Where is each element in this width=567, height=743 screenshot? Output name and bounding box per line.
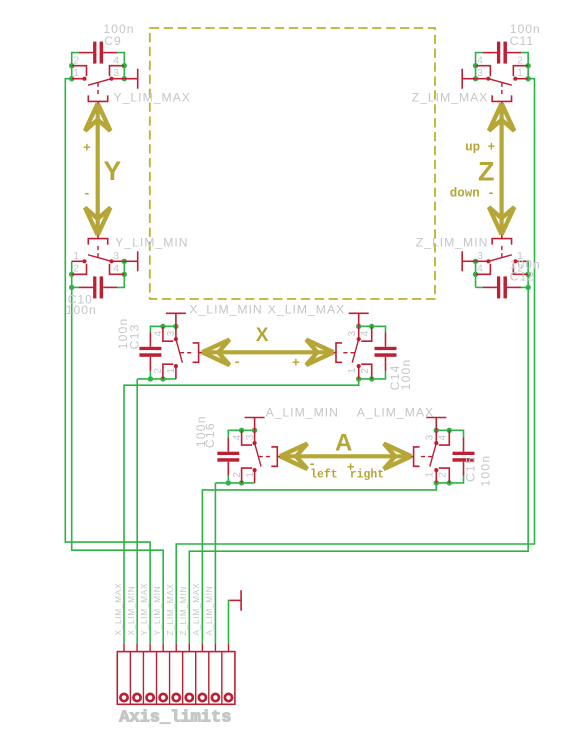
svg-text:2: 2 (517, 56, 523, 67)
svg-text:C11: C11 (510, 34, 534, 48)
svg-text:Y: Y (104, 156, 122, 186)
svg-text:4: 4 (113, 56, 119, 67)
svg-text:Axis_limits: Axis_limits (119, 708, 231, 727)
svg-text:Z_LIM_MAX: Z_LIM_MAX (412, 91, 489, 105)
svg-text:4: 4 (113, 264, 119, 275)
svg-text:1: 1 (347, 368, 358, 374)
svg-text:Y_LIM_MAX: Y_LIM_MAX (140, 583, 149, 636)
svg-text:C13: C13 (127, 323, 141, 349)
svg-text:2: 2 (153, 368, 164, 374)
svg-text:3: 3 (113, 68, 119, 79)
svg-text:X_LIM_MAX: X_LIM_MAX (114, 583, 123, 636)
svg-text:1: 1 (166, 368, 177, 374)
svg-text:Z: Z (478, 157, 495, 187)
svg-text:4: 4 (438, 434, 449, 440)
svg-text:X_LIM_MIN: X_LIM_MIN (127, 586, 136, 636)
svg-text:1: 1 (517, 68, 523, 79)
svg-text:100n: 100n (399, 358, 413, 390)
svg-text:3: 3 (113, 251, 119, 262)
svg-text:1: 1 (425, 472, 436, 478)
svg-text:Y_LIM_MIN: Y_LIM_MIN (153, 586, 162, 636)
svg-text:-: - (83, 186, 91, 201)
svg-text:X_LIM_MAX: X_LIM_MAX (268, 302, 345, 316)
svg-text:+: + (292, 356, 300, 371)
svg-text:C9: C9 (104, 34, 122, 48)
svg-text:2: 2 (73, 264, 79, 275)
svg-text:3: 3 (245, 434, 256, 440)
svg-text:A_LIM_MAX: A_LIM_MAX (357, 406, 434, 420)
svg-text:-: - (233, 354, 241, 369)
svg-text:3: 3 (477, 251, 483, 262)
svg-text:A_LIM_MAX: A_LIM_MAX (192, 583, 201, 636)
svg-text:3: 3 (477, 68, 483, 79)
svg-text:C12: C12 (510, 270, 535, 284)
svg-text:3: 3 (425, 434, 436, 440)
svg-text:A_LIM_MIN: A_LIM_MIN (205, 586, 214, 636)
svg-text:up +: up + (465, 140, 495, 154)
svg-text:+: + (83, 140, 91, 155)
svg-text:1: 1 (245, 472, 256, 478)
svg-text:right: right (350, 469, 385, 482)
svg-text:2: 2 (438, 472, 449, 478)
svg-text:Y_LIM_MIN: Y_LIM_MIN (115, 235, 188, 249)
svg-text:4: 4 (232, 434, 243, 440)
svg-text:1: 1 (73, 251, 79, 262)
svg-text:100n: 100n (66, 303, 97, 317)
svg-text:C16: C16 (203, 422, 217, 448)
svg-text:Z_LIM_MIN: Z_LIM_MIN (416, 235, 489, 249)
svg-text:X: X (256, 325, 269, 346)
svg-text:A: A (335, 429, 352, 456)
svg-text:4: 4 (153, 330, 164, 336)
svg-text:2: 2 (73, 56, 79, 67)
svg-text:4: 4 (477, 264, 483, 275)
svg-text:4: 4 (477, 56, 483, 67)
svg-text:Z_LIM_MIN: Z_LIM_MIN (179, 586, 188, 636)
svg-text:A_LIM_MIN: A_LIM_MIN (266, 406, 339, 420)
svg-text:Z_LIM_MAX: Z_LIM_MAX (166, 583, 175, 635)
svg-text:X_LIM_MIN: X_LIM_MIN (189, 302, 262, 316)
svg-text:Y_LIM_MAX: Y_LIM_MAX (114, 91, 191, 105)
svg-text:C15: C15 (464, 456, 478, 482)
svg-text:2: 2 (360, 368, 371, 374)
svg-text:100n: 100n (478, 455, 492, 487)
svg-text:down -: down - (450, 186, 495, 200)
svg-text:3: 3 (347, 330, 358, 336)
svg-text:3: 3 (166, 330, 177, 336)
svg-text:left: left (310, 469, 338, 482)
svg-text:1: 1 (73, 68, 79, 79)
svg-text:2: 2 (232, 472, 243, 478)
svg-text:4: 4 (360, 330, 371, 336)
